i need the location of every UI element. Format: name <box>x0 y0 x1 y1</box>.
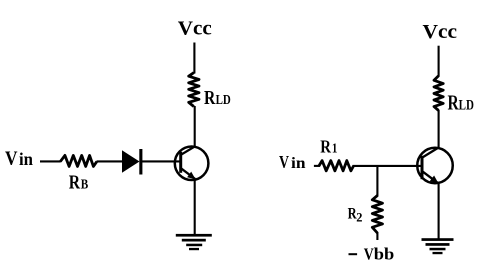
transistor Q1 <box>175 146 209 180</box>
svg-text:R: R <box>204 87 216 109</box>
svg-text:R: R <box>448 91 460 115</box>
svg-text:V: V <box>364 244 375 263</box>
wire Vin to R1 (right) <box>314 165 320 167</box>
wire Vcc to RLD (left) <box>193 43 195 74</box>
wire Vcc to RLD (right) <box>438 46 440 77</box>
supply label -Vbb <box>349 244 395 263</box>
resistor R2 <box>372 196 382 234</box>
svg-text:B: B <box>81 177 89 192</box>
resistor RLD (left) <box>189 73 199 107</box>
svg-text:LD: LD <box>459 98 474 114</box>
ground (left) <box>176 234 212 250</box>
svg-text:in: in <box>19 149 33 169</box>
wire RB to diode <box>97 160 123 162</box>
svg-text:LD: LD <box>216 93 231 108</box>
wire base-junction node to R2 <box>376 166 378 197</box>
wire diode to base (left) <box>141 160 181 162</box>
wire Vin to RB (left) <box>40 160 61 162</box>
diode D1 <box>122 149 142 175</box>
svg-text:V: V <box>5 148 18 170</box>
svg-text:V: V <box>279 152 289 172</box>
svg-text:in: in <box>291 155 306 172</box>
wire R2 to -Vbb <box>376 232 378 240</box>
resistor RLD (right) <box>434 76 443 111</box>
svg-text:R: R <box>69 172 81 194</box>
wire RLD to collector (right) <box>438 110 440 148</box>
wire emitter to ground (right) <box>438 184 440 240</box>
svg-text:2: 2 <box>356 211 362 225</box>
svg-text:bb: bb <box>374 244 395 263</box>
svg-text:R: R <box>320 137 331 157</box>
resistor RB <box>60 155 97 166</box>
svg-text:1: 1 <box>332 141 338 156</box>
ground (right) <box>422 238 454 254</box>
wire R1 to base (right) <box>353 165 423 167</box>
wire RLD to collector (left) <box>194 106 196 147</box>
wire emitter to ground (left) <box>194 179 196 235</box>
transistor Q2 <box>417 147 453 183</box>
svg-text:Vcc: Vcc <box>178 18 212 40</box>
svg-text:Vcc: Vcc <box>423 21 458 43</box>
resistor R1 <box>319 161 354 171</box>
